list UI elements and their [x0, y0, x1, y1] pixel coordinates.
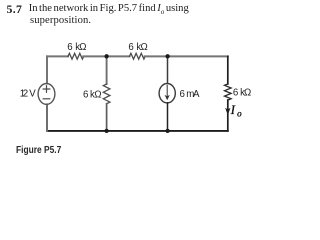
wire current source branch lower	[167, 103, 169, 131]
svg-text:mA: mA	[186, 89, 200, 100]
svg-text:6: 6	[180, 89, 185, 100]
V1 minus sign	[43, 98, 50, 100]
wire R2 to node B	[145, 55, 168, 57]
svg-text:6: 6	[128, 42, 133, 53]
wire left branch upper (gray)	[46, 56, 48, 83]
resistor R3 (middle 6 kOhm)	[103, 84, 110, 104]
svg-text:kΩ: kΩ	[240, 87, 251, 98]
wire node B to top-right corner	[168, 55, 228, 57]
svg-text:6: 6	[233, 87, 238, 98]
I1 arrowhead	[165, 95, 170, 100]
wire right branch lower (black, Io arrow shaft)	[227, 100, 229, 131]
resistor R1	[68, 53, 84, 59]
problem statement line 1	[29, 3, 189, 16]
wire R1 to node A	[83, 55, 106, 57]
node C (bottom junction left)	[104, 129, 108, 133]
Io arrow head (on right branch wire)	[225, 108, 230, 115]
wire middle branch lower (gray)	[106, 104, 108, 131]
svg-text:kΩ: kΩ	[90, 89, 102, 100]
svg-text:Io: Io	[230, 103, 242, 119]
wire middle branch upper (gray)	[106, 56, 108, 84]
node D (bottom junction right)	[165, 129, 169, 133]
wire node A to R2	[107, 55, 130, 57]
wire bottom (black)	[47, 130, 228, 132]
I1 arrow shaft	[166, 86, 168, 97]
resistor R4 (right 6 kOhm)	[225, 84, 232, 100]
svg-text:kΩ: kΩ	[75, 42, 86, 53]
wire left branch lower (gray)	[46, 104, 48, 130]
wire top-left (gray)	[47, 55, 68, 57]
node A (top junction left)	[104, 54, 108, 58]
svg-text:6: 6	[67, 42, 72, 53]
svg-text:V: V	[29, 89, 36, 100]
svg-text:6: 6	[83, 89, 88, 100]
figure caption	[16, 144, 61, 156]
wire right branch upper (black)	[227, 56, 229, 84]
problem statement line 2	[30, 15, 91, 26]
voltage source V1 (12 V)	[38, 84, 55, 105]
node B (top junction right)	[165, 54, 169, 58]
wire current source branch upper	[167, 56, 169, 83]
resistor R2	[130, 53, 146, 59]
problem number 5.7	[7, 2, 23, 17]
V1 plus sign	[43, 86, 50, 93]
current source I1 (6 mA)	[159, 84, 175, 103]
svg-text:12: 12	[20, 89, 28, 100]
svg-text:kΩ: kΩ	[136, 42, 147, 53]
